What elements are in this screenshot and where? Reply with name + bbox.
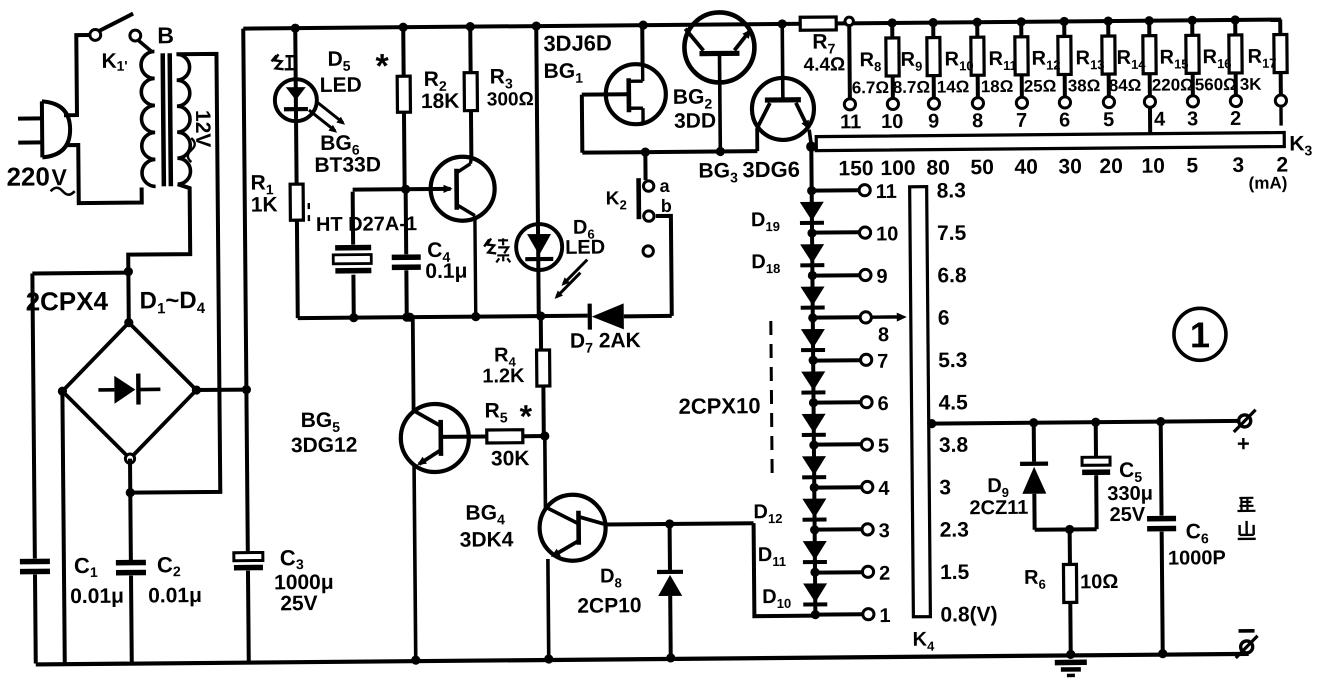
terminal K4-9 xyxy=(860,269,871,280)
LED D6 emission arrows xyxy=(563,260,587,284)
figure number circle 1 xyxy=(1174,308,1226,360)
node chain tap 6 xyxy=(809,398,818,407)
wire tap 10 to terminal xyxy=(812,230,859,234)
svg-text:D1~D4: D1~D4 xyxy=(139,287,205,318)
wire BG4 collector line xyxy=(606,523,754,524)
svg-text:C: C xyxy=(157,552,173,577)
svg-text:3DG12: 3DG12 xyxy=(291,434,358,458)
svg-text:3: 3 xyxy=(1187,108,1198,130)
svg-text:5: 5 xyxy=(878,435,889,457)
LED D6 branch from rail xyxy=(532,21,541,30)
svg-text:0.01μ: 0.01μ xyxy=(70,585,124,608)
svg-text:8.7Ω: 8.7Ω xyxy=(893,78,930,97)
resistor R4 xyxy=(539,316,543,350)
svg-text:40: 40 xyxy=(1014,156,1038,179)
output terminal negative xyxy=(1243,651,1247,655)
terminal K4-7 xyxy=(861,354,872,365)
node chain tap 8 xyxy=(808,313,817,322)
svg-text:4.5: 4.5 xyxy=(938,391,968,414)
capacitor C5 electrolytic xyxy=(1094,422,1098,458)
capacitor C1 xyxy=(32,273,34,558)
switch K1' xyxy=(90,29,101,40)
node AC-left junction xyxy=(124,267,133,276)
svg-text:10: 10 xyxy=(881,111,903,133)
resistor R7 on rail xyxy=(800,17,836,30)
svg-text:6: 6 xyxy=(938,307,950,330)
svg-text:25Ω: 25Ω xyxy=(1024,77,1057,96)
wire D7 to K2 contact b xyxy=(656,216,672,316)
svg-text:20: 20 xyxy=(1099,155,1123,178)
svg-text:2CPX4: 2CPX4 xyxy=(25,286,108,317)
capacitor C6 xyxy=(1159,422,1164,516)
svg-text:0.1μ: 0.1μ xyxy=(425,260,467,283)
svg-text:330μ: 330μ xyxy=(1107,483,1153,505)
node chain tap 5 xyxy=(809,440,818,449)
diode D18 xyxy=(800,244,824,263)
node chain tap 7 xyxy=(809,356,818,365)
transistor BG3 3DG6 xyxy=(752,78,815,141)
node C6 bottom rail xyxy=(1158,649,1167,658)
svg-text:HT D27A-1: HT D27A-1 xyxy=(316,213,417,236)
svg-text:220Ω: 220Ω xyxy=(1152,75,1194,94)
svg-text:220: 220 xyxy=(6,161,50,191)
node chain tap 11 xyxy=(807,186,816,195)
terminal K4-11 xyxy=(859,185,870,196)
svg-text:B: B xyxy=(157,22,174,48)
wire main left vertical from top rail to C3 xyxy=(243,29,248,555)
selector switch K4 bar xyxy=(910,187,931,617)
diode D12 xyxy=(802,499,826,518)
transformer B core xyxy=(160,53,166,186)
svg-text:100: 100 xyxy=(880,157,915,180)
label red (hong) xyxy=(271,54,283,69)
zener diode D9 2CZ11 xyxy=(1032,423,1036,462)
node bridge right xyxy=(192,385,201,394)
node D9 top xyxy=(1029,418,1038,427)
svg-text:2.3: 2.3 xyxy=(940,519,969,542)
svg-text:18Ω: 18Ω xyxy=(981,77,1014,96)
resistor R11 xyxy=(1017,17,1026,26)
wire tap 11 to terminal xyxy=(812,188,859,192)
node chain tap 2 xyxy=(810,568,819,577)
unijunction transistor BG6 xyxy=(430,156,495,221)
svg-text:2CZ11: 2CZ11 xyxy=(969,497,1028,520)
svg-text:4: 4 xyxy=(1154,109,1166,131)
svg-text:84Ω: 84Ω xyxy=(1109,76,1142,95)
terminal K3-11 xyxy=(844,99,855,110)
svg-text:25V: 25V xyxy=(280,592,318,615)
svg-text:25V: 25V xyxy=(1109,504,1145,526)
switch K2 xyxy=(643,152,647,180)
node chain tap 10 xyxy=(807,228,816,237)
svg-text:b: b xyxy=(661,196,672,216)
svg-text:C: C xyxy=(280,545,296,570)
wire top positive rail xyxy=(243,20,1281,29)
LED D6 green xyxy=(516,224,562,270)
wire diode chain vertical xyxy=(811,145,815,615)
terminal K3-1 xyxy=(1275,95,1286,106)
transistor BG5 3DG12 xyxy=(401,404,470,473)
svg-text:1: 1 xyxy=(1190,314,1210,355)
svg-text:*: * xyxy=(519,398,532,434)
svg-text:C: C xyxy=(74,553,90,578)
wire bridge bottom to C2 node xyxy=(128,459,133,561)
svg-text:1K: 1K xyxy=(251,193,278,216)
svg-text:2: 2 xyxy=(879,563,890,585)
svg-text:150: 150 xyxy=(838,157,873,180)
node D6/R4 junction xyxy=(536,311,545,320)
K3 wiper contact at position 4 xyxy=(1148,107,1152,134)
svg-text:3: 3 xyxy=(879,520,890,542)
svg-text:3: 3 xyxy=(1232,154,1244,177)
node bridge left xyxy=(58,387,67,396)
wire tap 6 to terminal xyxy=(814,400,861,404)
wire tap 3 to terminal xyxy=(815,527,862,531)
node BG2 base xyxy=(716,147,725,156)
wire tap 9 to terminal xyxy=(812,273,859,277)
wire bottom rail xyxy=(36,654,1249,665)
resistor R10 xyxy=(973,18,982,27)
svg-text:30K: 30K xyxy=(491,447,530,470)
terminal K3-8 xyxy=(972,98,983,109)
resistor R15 xyxy=(1188,16,1197,25)
svg-text:6: 6 xyxy=(877,393,888,415)
wire output positive line xyxy=(929,421,1241,424)
svg-text:18K: 18K xyxy=(421,90,460,113)
node D8 top xyxy=(665,519,674,528)
wire plug to switch K1 xyxy=(63,35,90,115)
svg-text:3: 3 xyxy=(939,476,951,499)
terminal K4-1 xyxy=(863,609,874,620)
label green (lv) xyxy=(484,238,496,253)
svg-text:+: + xyxy=(1237,431,1250,456)
svg-text:30: 30 xyxy=(1058,155,1082,178)
svg-text:9: 9 xyxy=(876,266,887,288)
capacitor C4 xyxy=(404,189,409,254)
svg-text:3.8: 3.8 xyxy=(939,434,969,457)
wire base line y152 xyxy=(582,151,757,153)
svg-text:1.5: 1.5 xyxy=(940,561,970,584)
node BG3 emitter / K3 bar / chain top junction xyxy=(806,141,816,151)
diode D19 xyxy=(800,202,824,221)
diode D15 xyxy=(801,371,825,390)
diode D11 xyxy=(803,541,827,560)
terminal K3-9 xyxy=(928,98,939,109)
svg-text:1: 1 xyxy=(879,605,890,627)
svg-text:BT33D: BT33D xyxy=(314,153,381,177)
bridge rectifier D1-D4 diamond xyxy=(62,322,197,459)
svg-text:11: 11 xyxy=(840,111,861,133)
svg-text:14Ω: 14Ω xyxy=(937,77,970,96)
diode D8 2CP10 xyxy=(668,524,672,570)
transformer B secondary winding 12V xyxy=(176,54,190,184)
svg-text:*: * xyxy=(375,47,389,85)
terminal K4-3 xyxy=(862,524,873,535)
dashed line 2CPX10 xyxy=(771,321,772,477)
node BG4 emitter bottom rail xyxy=(544,654,553,663)
svg-text:2CP10: 2CP10 xyxy=(577,594,641,618)
svg-text:300Ω: 300Ω xyxy=(487,89,534,110)
transistor BG2 3DD xyxy=(684,12,755,83)
node chain tap 1 xyxy=(811,610,820,619)
terminal K4-5 xyxy=(861,439,872,450)
svg-text:D7 2AK: D7 2AK xyxy=(570,329,641,356)
svg-text:10Ω: 10Ω xyxy=(1080,571,1118,593)
svg-text:9: 9 xyxy=(928,111,939,133)
svg-text:5.3: 5.3 xyxy=(938,349,967,372)
svg-text:7.5: 7.5 xyxy=(937,222,967,245)
node D8 bottom rail xyxy=(666,653,675,662)
svg-text:4: 4 xyxy=(878,478,890,500)
node bridge bottom xyxy=(125,454,134,463)
node C6 top xyxy=(1156,417,1165,426)
svg-text:a: a xyxy=(660,176,671,196)
svg-text:LED: LED xyxy=(565,236,605,258)
capacitor C3 electrolytic xyxy=(234,552,263,560)
wiper arrow at tap 8 xyxy=(872,315,901,319)
wire collector line to diode chain bottom xyxy=(754,523,816,617)
terminal K3-10 xyxy=(887,98,898,109)
output terminal positive xyxy=(1239,415,1251,427)
transformer B primary winding xyxy=(137,39,151,51)
svg-text:K: K xyxy=(101,50,116,73)
svg-text:3DK4: 3DK4 xyxy=(460,528,514,551)
node main vertical junction xyxy=(242,385,251,394)
terminal K4-4 xyxy=(862,481,873,492)
svg-text:10: 10 xyxy=(876,223,898,245)
wire tap 8 to terminal xyxy=(813,315,860,319)
wire BG1 gate down to base line xyxy=(580,95,585,153)
svg-text:5: 5 xyxy=(1186,154,1198,177)
svg-text:2CPX10: 2CPX10 xyxy=(678,393,760,419)
svg-text:6.7Ω: 6.7Ω xyxy=(852,78,889,97)
node BG5 collector top xyxy=(405,313,414,322)
svg-text:3DJ6D: 3DJ6D xyxy=(543,30,612,56)
resistor R2 branch xyxy=(399,23,408,32)
wire plug to transformer primary bottom xyxy=(65,145,142,204)
terminal K3-7 xyxy=(1016,97,1027,108)
node C2 top junction xyxy=(126,488,135,497)
wire tap 1 to terminal xyxy=(815,612,862,616)
diode D13 xyxy=(802,456,826,475)
terminal K3-3 xyxy=(1187,96,1198,107)
svg-text:1000μ: 1000μ xyxy=(274,571,334,595)
node R2-emitter junction xyxy=(401,185,410,194)
terminal K4-10 xyxy=(859,227,870,238)
svg-text:(mA): (mA) xyxy=(1249,174,1288,193)
capacitor C2 xyxy=(116,560,146,566)
resistor R16 xyxy=(1231,15,1240,24)
resistor R3 branch xyxy=(466,22,475,31)
terminal K3-4 xyxy=(1144,96,1155,107)
pin label 1 xyxy=(1279,108,1283,126)
LED D5 red xyxy=(275,79,317,121)
svg-text:V: V xyxy=(51,164,67,190)
FET BG1 3DJ6D xyxy=(606,64,667,125)
diode D14 xyxy=(802,414,826,433)
wire C1 branch horizontal xyxy=(32,271,128,276)
resistor R17 xyxy=(1278,20,1282,35)
label shuchu (output) xyxy=(1237,498,1255,511)
svg-text:3K: 3K xyxy=(1240,75,1263,94)
svg-text:1.2K: 1.2K xyxy=(482,365,525,387)
terminal K4-2 xyxy=(862,566,873,577)
wire BG1 drain to rail xyxy=(640,25,644,65)
svg-text:6.8: 6.8 xyxy=(937,264,967,287)
svg-text:38Ω: 38Ω xyxy=(1068,76,1101,95)
diode D7 on bottom line xyxy=(588,304,592,330)
svg-text:3: 3 xyxy=(296,556,304,572)
wire tap 4 to terminal xyxy=(814,485,861,489)
wire bridge left to bottom rail xyxy=(62,391,64,663)
terminal K4-6 xyxy=(861,397,872,408)
transistor BG4 3DK4 xyxy=(539,494,606,561)
terminal K3-5 xyxy=(1103,96,1114,107)
LED D5 emission arrows xyxy=(309,110,335,131)
svg-text:560Ω: 560Ω xyxy=(1195,75,1237,94)
node R7 output / terminal 11 feed xyxy=(845,17,853,25)
svg-text:4.4Ω: 4.4Ω xyxy=(803,54,845,75)
node C5 top xyxy=(1091,418,1100,427)
svg-text:8: 8 xyxy=(972,110,983,132)
svg-text:1': 1' xyxy=(116,58,127,74)
ground symbol xyxy=(1055,660,1087,666)
resistor R8 xyxy=(888,18,897,27)
svg-text:11: 11 xyxy=(876,181,897,203)
resistor R6 xyxy=(1068,529,1072,564)
node R6 top xyxy=(1065,525,1074,534)
svg-text:5: 5 xyxy=(1103,109,1114,131)
crystal buzzer HT D27A-1 xyxy=(351,192,355,245)
spare contact of K2 xyxy=(643,246,653,256)
terminal K3-2 xyxy=(1230,95,1241,106)
resistor R12 xyxy=(1060,17,1069,26)
node BG1 source / K2 feed xyxy=(641,147,650,156)
svg-text:0.8(V): 0.8(V) xyxy=(940,603,997,626)
node BG5 emitter bottom rail xyxy=(411,656,420,665)
BG6 emitter wire from R2 xyxy=(353,187,451,192)
svg-text:LED: LED xyxy=(320,74,362,97)
resistor R13 xyxy=(1104,16,1113,25)
svg-text:1000P: 1000P xyxy=(1168,547,1226,570)
terminal K4-8 xyxy=(860,312,871,323)
svg-text:3DD: 3DD xyxy=(674,110,716,133)
diode D17 xyxy=(801,287,825,306)
wire secondary bottom to AC node left xyxy=(128,184,191,321)
resistor R5 xyxy=(441,435,487,439)
wire tap 5 to terminal xyxy=(814,442,861,446)
resistor R9 xyxy=(929,18,938,27)
wire D9/C5 bottom join xyxy=(1035,527,1097,532)
node chain tap 4 xyxy=(810,483,819,492)
node BG6 b1 bottom xyxy=(471,312,480,321)
resistor R1 xyxy=(290,184,303,220)
wire tap 7 to terminal xyxy=(813,358,860,362)
node chain tap 9 xyxy=(808,271,817,280)
svg-text:50: 50 xyxy=(970,156,994,179)
svg-text:2: 2 xyxy=(1230,108,1241,130)
svg-text:0.01μ: 0.01μ xyxy=(148,584,202,607)
svg-text:10: 10 xyxy=(1141,155,1165,178)
bridge inner diode symbol xyxy=(98,388,114,392)
wire D5 branch from rail xyxy=(291,24,300,33)
svg-text:7: 7 xyxy=(877,351,888,373)
diode D10 xyxy=(803,583,827,602)
svg-text:80: 80 xyxy=(926,156,950,179)
diode D16 xyxy=(801,329,825,348)
rotary switch K3 bar xyxy=(816,133,1284,151)
svg-text:1: 1 xyxy=(90,564,98,580)
node crystal bottom xyxy=(349,313,358,322)
wire secondary top to AC node right loop xyxy=(126,54,220,493)
wire oscillator bottom line xyxy=(298,316,588,319)
node chain tap 3 xyxy=(810,525,819,534)
svg-text:8.3: 8.3 xyxy=(937,179,966,202)
node R6 bottom rail xyxy=(1066,650,1075,659)
terminal K3-6 xyxy=(1059,97,1070,108)
svg-text:8: 8 xyxy=(878,324,889,346)
svg-text:7: 7 xyxy=(1016,110,1027,132)
svg-text:6: 6 xyxy=(1059,109,1070,131)
node bridge top xyxy=(124,318,133,327)
wire tap 2 to terminal xyxy=(815,570,862,574)
node C4 bottom xyxy=(402,313,411,322)
node R4/R5/BG4 junction xyxy=(540,431,549,440)
resistor R14 xyxy=(1145,16,1154,25)
svg-text:2: 2 xyxy=(173,563,181,579)
plug 220V AC xyxy=(40,101,44,157)
wire bridge right to main left vertical xyxy=(196,388,246,392)
svg-text:3DG6: 3DG6 xyxy=(742,157,800,183)
